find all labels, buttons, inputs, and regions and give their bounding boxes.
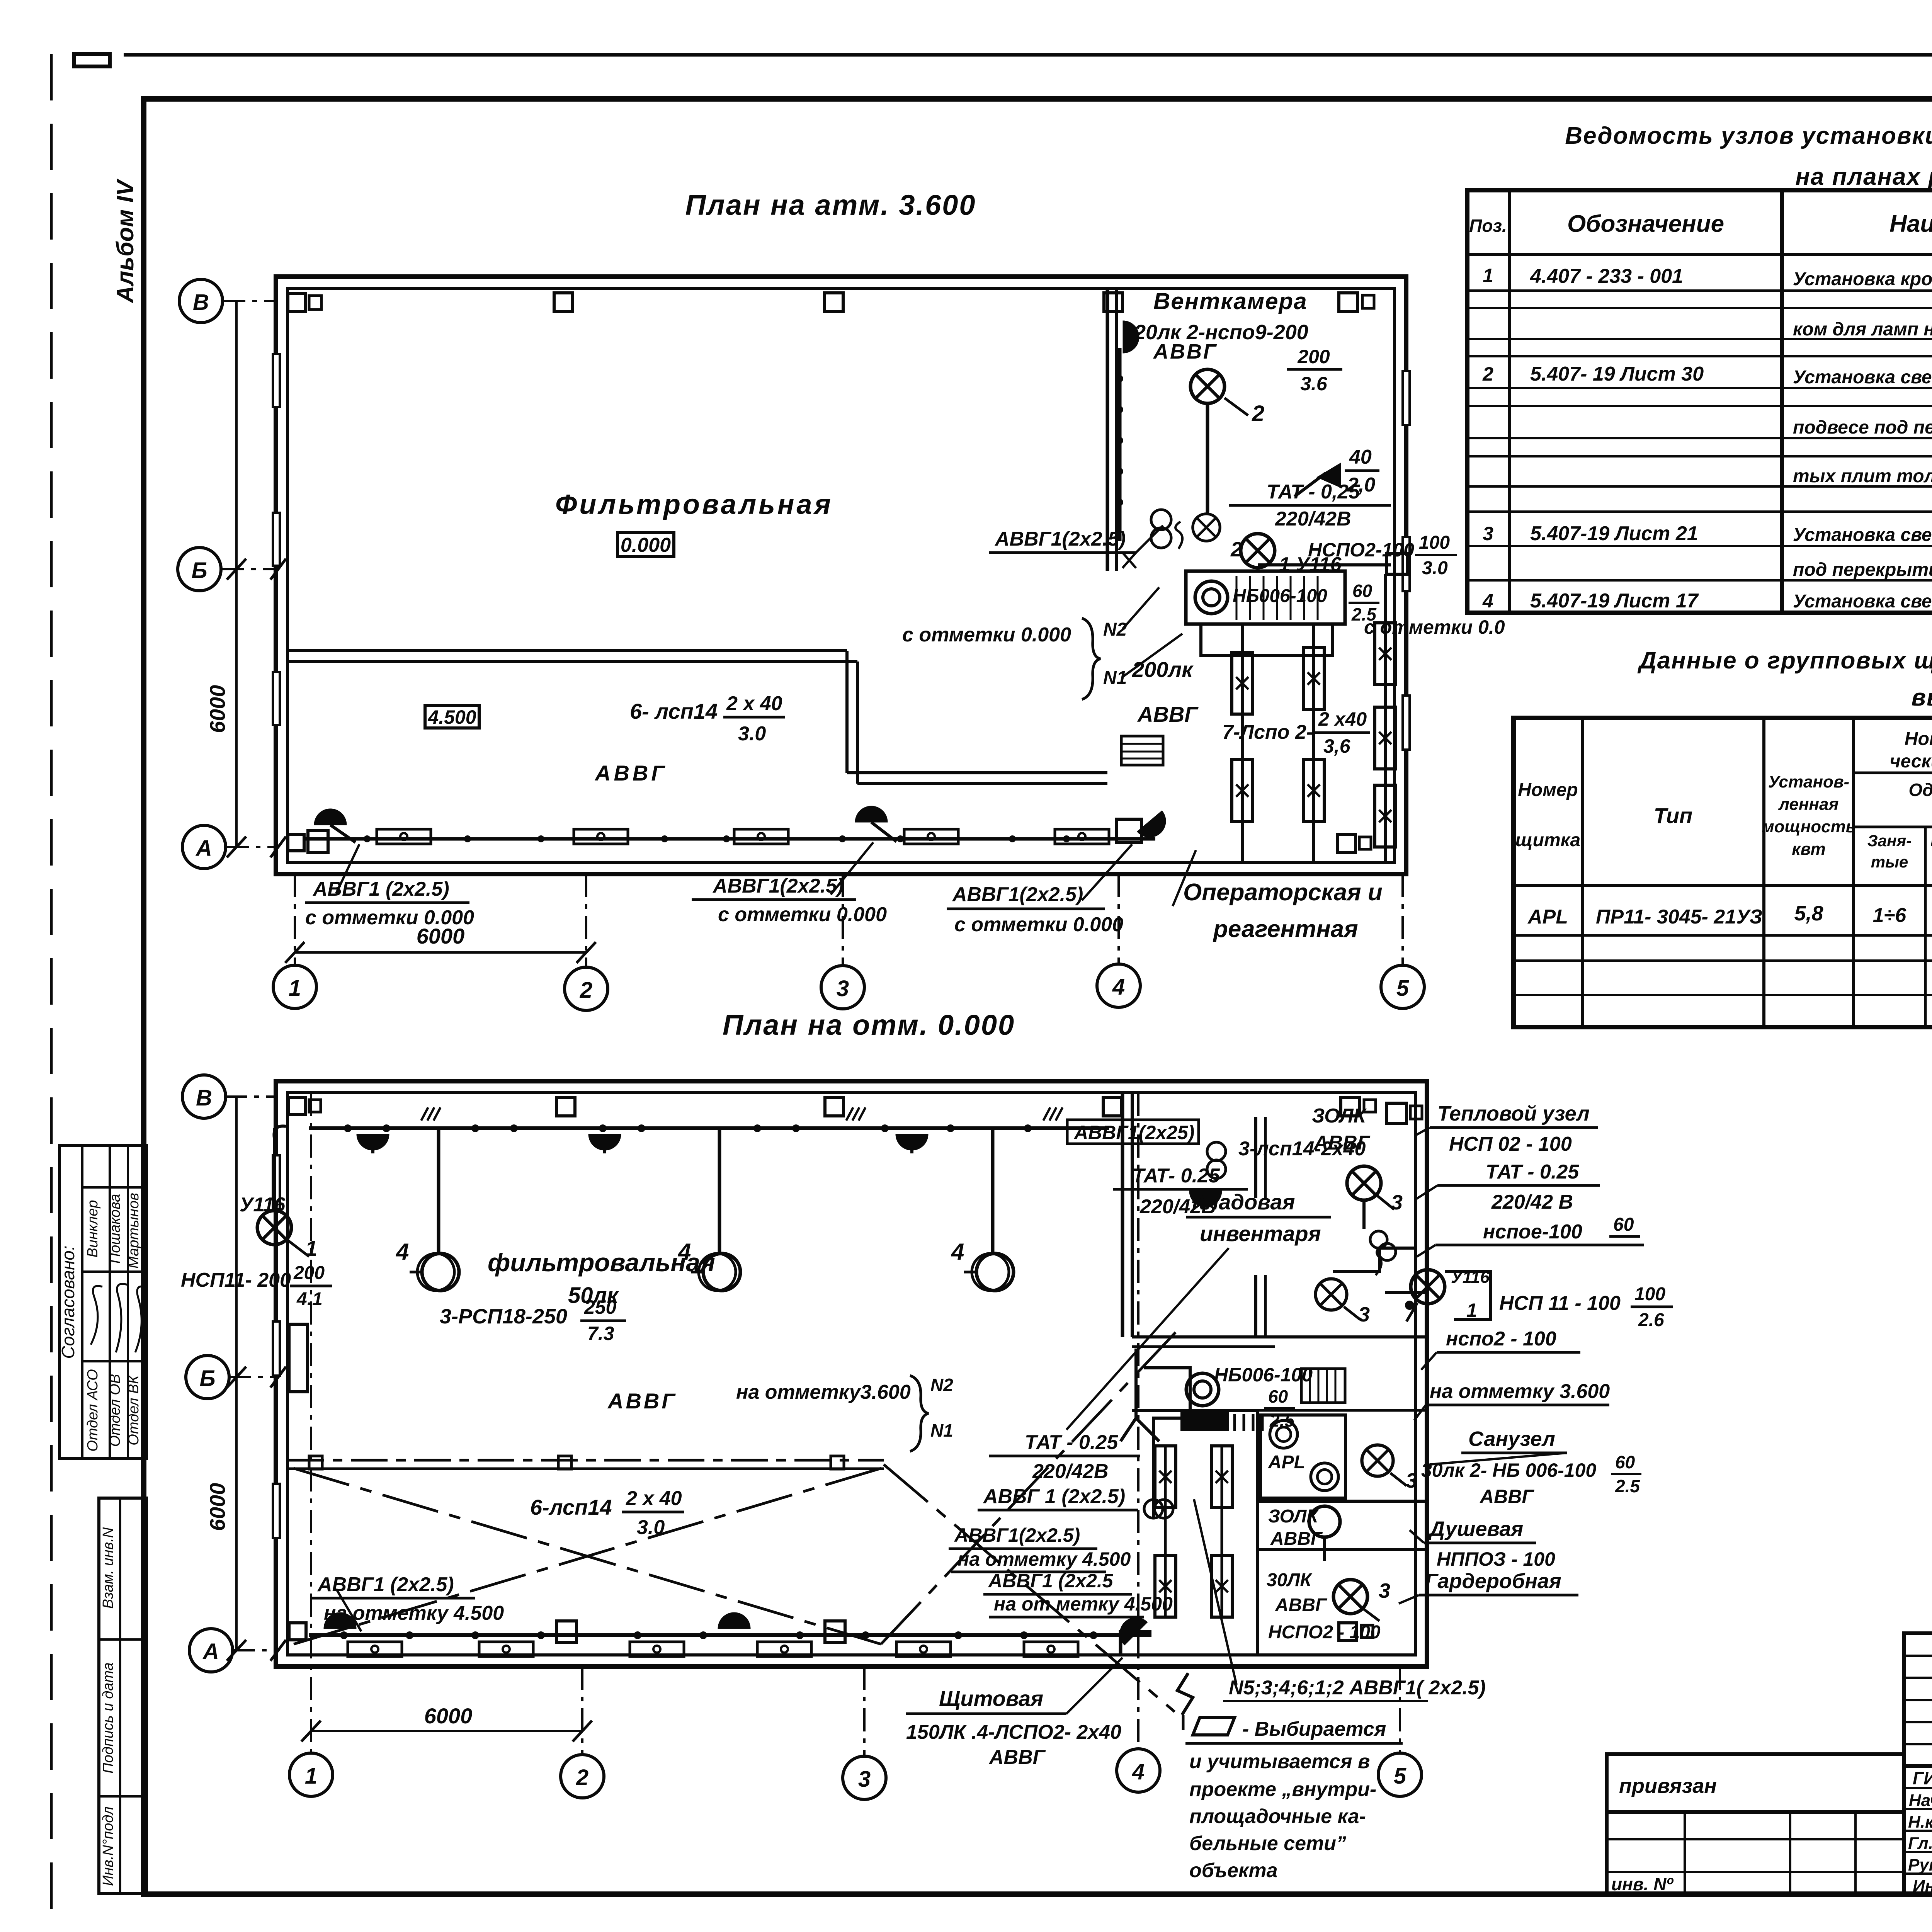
TITLE-BLOCK <box>1607 1633 1932 1896</box>
svg-text:Щитовая: Щитовая <box>939 1686 1043 1711</box>
svg-text:План на атм. 3.600: План на атм. 3.600 <box>685 189 976 221</box>
dannye verticals full <box>1581 718 1584 1027</box>
LEFT-STRIP <box>58 1145 147 1893</box>
svg-text:АВВГ: АВВГ <box>1313 1132 1371 1154</box>
svg-text:200: 200 <box>1297 346 1330 367</box>
svg-text:6000: 6000 <box>417 924 465 948</box>
fluorescent column 3 <box>1384 574 1387 862</box>
column top 5 <box>1341 1097 1359 1116</box>
partition wall horizontal <box>287 649 847 652</box>
axis 3 line <box>842 874 844 966</box>
svg-text:на планах расположения: на планах расположения <box>1795 163 1932 190</box>
svg-text:тые: тые <box>1871 853 1908 871</box>
switch cluster <box>1151 510 1171 530</box>
bottom interior wire <box>305 837 1155 841</box>
ceiling fixtures bottom row <box>377 829 431 844</box>
wall dome lamp 3 <box>896 1134 928 1150</box>
svg-text:200: 200 <box>293 1263 325 1283</box>
wire hooks right <box>1376 1245 1383 1275</box>
svg-text:Резерв-: Резерв- <box>1930 832 1932 850</box>
axis 4 lower <box>1137 1093 1139 1749</box>
fluorescent pair left <box>1155 1446 1176 1508</box>
column top 1 <box>288 294 306 311</box>
svg-text:5.407- 19 Лист 30: 5.407- 19 Лист 30 <box>1530 363 1704 385</box>
ventkamera wire vertical <box>1118 348 1122 541</box>
column top 5b <box>1362 295 1374 308</box>
svg-text:ПР11- 3045- 21УЗ: ПР11- 3045- 21УЗ <box>1596 906 1762 928</box>
svg-text:бельные сети”: бельные сети” <box>1189 1832 1346 1855</box>
svg-text:с отметки 0.000: с отметки 0.000 <box>954 913 1123 936</box>
small switch circles <box>1370 1231 1387 1248</box>
svg-text:нспое-100: нспое-100 <box>1483 1221 1582 1243</box>
svg-text:Кладовая: Кладовая <box>1192 1190 1295 1214</box>
svg-text:7.3: 7.3 <box>587 1323 614 1344</box>
fan room walls <box>1132 1335 1427 1338</box>
wall lamp dome left <box>314 809 347 825</box>
partition wall corner vertical <box>845 651 849 773</box>
svg-text:1: 1 <box>1483 265 1493 286</box>
shchitovaya room wall jog <box>1121 1632 1151 1655</box>
svg-text:5: 5 <box>1396 976 1409 1001</box>
svg-text:на от метку 4.500: на от метку 4.500 <box>994 1593 1173 1615</box>
callout AVVG1 top lower-plan <box>1067 1120 1199 1144</box>
svg-text:Винклер: Винклер <box>85 1200 101 1257</box>
svg-text:реагентная: реагентная <box>1213 916 1358 942</box>
svg-text:В: В <box>196 1085 212 1111</box>
pendant drop 1 <box>437 1128 440 1254</box>
svg-text:60: 60 <box>1613 1214 1634 1235</box>
svg-text:проекте „внутри-: проекте „внутри- <box>1189 1778 1376 1801</box>
svg-text:Подпись и дата: Подпись и дата <box>100 1662 116 1773</box>
lamp U116 <box>1241 534 1275 568</box>
bottom dome lamp 1 <box>324 1612 356 1629</box>
svg-text:АВВГ: АВВГ <box>1275 1595 1328 1616</box>
svg-text:3: 3 <box>1358 1303 1370 1326</box>
pendant drop 3 <box>991 1128 995 1254</box>
window left wall 2 <box>273 513 280 566</box>
axis 2 lower <box>581 1667 583 1755</box>
top-left small box <box>74 54 110 66</box>
staff grid <box>1904 1766 1932 1895</box>
bottom dome lamp 3 <box>1113 1611 1148 1645</box>
svg-text:5.407-19 Лист 21: 5.407-19 Лист 21 <box>1530 522 1698 545</box>
window left wall 1 <box>273 1155 280 1209</box>
wall lamp right with box <box>1117 819 1141 842</box>
wall lamp dome mid <box>855 806 888 822</box>
svg-text:АВВГ1 (2х2.5): АВВГ1 (2х2.5) <box>312 878 449 900</box>
vertical dim 6000 lower <box>235 1097 238 1650</box>
vybirayetsya note <box>1193 1718 1235 1735</box>
svg-text:100: 100 <box>1634 1284 1665 1304</box>
svg-text:3: 3 <box>1391 1191 1403 1214</box>
vertical dim 6000 <box>235 301 238 847</box>
window right wall 1 <box>1403 371 1410 425</box>
svg-text:Установ-: Установ- <box>1768 772 1849 791</box>
svg-text:Установка светильника на крю: Установка светильника на крюке <box>1793 525 1932 545</box>
wall dome lamp 1 <box>357 1134 389 1150</box>
column top 3 <box>825 1097 844 1116</box>
column bottom right b <box>1359 837 1371 849</box>
lamp 2 lower <box>1193 514 1220 541</box>
inner wall line <box>287 1093 1415 1655</box>
dannye verticals partial <box>1924 827 1927 1027</box>
svg-text:6000: 6000 <box>424 1704 473 1728</box>
svg-text:2: 2 <box>576 1765 588 1790</box>
axis circle A lower <box>232 1649 276 1651</box>
svg-text:Б: Б <box>199 1366 215 1391</box>
column top 2 <box>556 1097 575 1116</box>
lamp 3 top right <box>1347 1166 1381 1200</box>
svg-text:щитка: щитка <box>1515 830 1581 850</box>
svg-text:1÷6: 1÷6 <box>1873 904 1906 927</box>
svg-text:1: 1 <box>1466 1299 1477 1321</box>
svg-text:Установка светильника на поло: Установка светильника на полосе <box>1793 591 1932 612</box>
svg-text:Пошакова: Пошакова <box>107 1194 123 1264</box>
bottom fixtures row <box>348 1642 402 1656</box>
ventkamera wall <box>1106 288 1109 571</box>
lower-left mini grid <box>1607 1812 1904 1895</box>
dannye table frame <box>1514 718 1932 1027</box>
top thin border line <box>124 53 1932 57</box>
bottom dome lamp 2 <box>718 1612 750 1629</box>
horizontal dim 6000 <box>295 951 586 954</box>
column top 2 <box>554 293 573 311</box>
svg-text:Поз.: Поз. <box>1469 216 1507 236</box>
svg-text:Однополюс-: Однополюс- <box>1909 780 1932 800</box>
svg-text:площадочные ка-: площадочные ка- <box>1189 1805 1366 1828</box>
svg-text:2 х 40: 2 х 40 <box>626 1487 682 1510</box>
svg-text:объекта: объекта <box>1189 1859 1278 1882</box>
svg-text:220/42В: 220/42В <box>1032 1460 1109 1483</box>
svg-text:100: 100 <box>1419 532 1450 553</box>
svg-text:30ЛК: 30ЛК <box>1267 1570 1313 1590</box>
svg-text:выключателями: выключателями <box>1912 684 1932 711</box>
svg-text:6000: 6000 <box>205 685 230 733</box>
axis circle V lower <box>224 1095 276 1098</box>
svg-text:АВВГ1(2х2.5): АВВГ1(2х2.5) <box>952 883 1083 906</box>
svg-text:А: А <box>202 1639 219 1664</box>
window right wall 2 <box>1403 537 1410 591</box>
lamp 3 lower right <box>1362 1445 1393 1476</box>
svg-text:200лк: 200лк <box>1132 657 1194 682</box>
horizontal dim 6000 lower <box>311 1730 582 1732</box>
dannye header horizontals <box>1854 772 1932 774</box>
partition wall with squares <box>287 1459 884 1462</box>
svg-text:2: 2 <box>580 978 592 1003</box>
lamp 3 bottom right <box>1333 1580 1367 1614</box>
axis line V <box>222 300 276 302</box>
svg-text:АВВГ: АВВГ <box>594 761 668 785</box>
svg-text:3: 3 <box>1379 1579 1390 1602</box>
svg-text:на отметку 3.600: на отметку 3.600 <box>1430 1380 1610 1403</box>
big cross X left <box>294 1468 881 1644</box>
svg-text:Инв.N°подл: Инв.N°подл <box>100 1806 116 1886</box>
svg-text:3,6: 3,6 <box>1323 735 1351 757</box>
svg-text:ТАТ - 0.25: ТАТ - 0.25 <box>1025 1431 1118 1454</box>
upper approvals strip box <box>60 1145 146 1459</box>
svg-text:АВВГ1 (2х2.5: АВВГ1 (2х2.5 <box>988 1570 1114 1592</box>
svg-text:АВВГ: АВВГ <box>1479 1486 1534 1507</box>
svg-text:Номера автомати-: Номера автомати- <box>1905 729 1932 749</box>
hook U116 top-left <box>274 1126 286 1138</box>
svg-text:0.000: 0.000 <box>621 534 671 556</box>
svg-text:APL: APL <box>1527 906 1568 928</box>
stairs <box>1121 736 1163 765</box>
privyazan box <box>1607 1754 1904 1812</box>
svg-text:ленная: ленная <box>1778 795 1839 814</box>
svg-text:7-Лспо 2-: 7-Лспо 2- <box>1222 721 1313 743</box>
svg-text:ГИП: ГИП <box>1913 1768 1932 1788</box>
wall pier left <box>289 1324 308 1392</box>
svg-text:Наименование: Наименование <box>1889 211 1932 237</box>
svg-text:2: 2 <box>1482 363 1493 385</box>
svg-text:220/42В: 220/42В <box>1275 508 1351 530</box>
svg-text:на отметку3.600: на отметку3.600 <box>736 1381 911 1403</box>
svg-text:НСП 02 - 100: НСП 02 - 100 <box>1449 1133 1572 1155</box>
TABLE-DANNYE <box>1514 647 1932 1027</box>
svg-text:6000: 6000 <box>205 1483 230 1531</box>
svg-text:с отметки 0.000: с отметки 0.000 <box>902 624 1071 646</box>
svg-text:4: 4 <box>951 1239 964 1265</box>
axis line A <box>226 846 276 848</box>
APL solid block <box>1180 1412 1229 1431</box>
svg-text:Заня-: Заня- <box>1867 832 1912 850</box>
U116 lamp box right <box>1411 1270 1445 1304</box>
svg-text:Рук. гр.: Рук. гр. <box>1908 1855 1932 1874</box>
svg-text:квт: квт <box>1792 840 1825 859</box>
axis 5 lower <box>1399 1667 1401 1753</box>
svg-text:Установка светильника на кр: Установка светильника на крюке , на <box>1793 367 1932 388</box>
bottom interior wire <box>309 1633 1151 1637</box>
svg-text:Тепловой узел: Тепловой узел <box>1437 1102 1590 1125</box>
svg-text:250: 250 <box>584 1296 617 1318</box>
svg-text:Б: Б <box>191 558 207 583</box>
svg-text:6-лсп14: 6-лсп14 <box>530 1495 612 1519</box>
svg-text:Нач. отд: Нач. отд <box>1909 1791 1932 1810</box>
svg-text:АВВГ: АВВГ <box>988 1746 1046 1769</box>
svg-text:5,8: 5,8 <box>1794 902 1823 925</box>
column bottom left b <box>308 831 328 852</box>
column top 1b <box>309 296 321 310</box>
inner wall line <box>287 288 1395 862</box>
svg-text:НБ006-100: НБ006-100 <box>1214 1364 1313 1386</box>
svg-text:АPL: АPL <box>1268 1452 1305 1473</box>
svg-text:под перекрытием из пустотных п: под перекрытием из пустотных плит <box>1793 560 1932 580</box>
svg-text:Номер: Номер <box>1518 780 1578 800</box>
axis 4 line <box>1117 874 1120 964</box>
elevation box 4.500 <box>425 706 479 728</box>
svg-text:3.0: 3.0 <box>637 1516 665 1539</box>
svg-text:НСПО2-100: НСПО2-100 <box>1308 539 1414 561</box>
svg-text:5: 5 <box>1394 1764 1406 1789</box>
top interior wire <box>309 1126 1109 1130</box>
svg-text:N5;3;4;6;1;2 АВВГ1( 2х2.5): N5;3;4;6;1;2 АВВГ1( 2х2.5) <box>1229 1677 1486 1699</box>
svg-text:и учитывается в: и учитывается в <box>1189 1750 1370 1773</box>
svg-text:2 х40: 2 х40 <box>1318 708 1367 730</box>
right rooms divider vertical <box>1121 1093 1124 1337</box>
svg-text:3.0: 3.0 <box>1422 558 1448 578</box>
svg-text:4.407 - 233 - 001: 4.407 - 233 - 001 <box>1530 265 1683 287</box>
svg-text:АВВГ1(2х25): АВВГ1(2х25) <box>1073 1122 1194 1143</box>
svg-text:Данные о групповых щитках: Данные о групповых щитках с автоматическ… <box>1637 647 1932 674</box>
svg-text:3.0: 3.0 <box>738 723 766 745</box>
teplovoy uzel wall fragment <box>1333 1248 1414 1271</box>
svg-text:220/42 В: 220/42 В <box>1491 1191 1573 1213</box>
svg-text:Душевая: Душевая <box>1428 1517 1523 1541</box>
svg-text:ческих выключателей: ческих выключателей <box>1890 751 1932 772</box>
svg-text:У116: У116 <box>1451 1268 1490 1287</box>
svg-text:2.6: 2.6 <box>1638 1310 1664 1330</box>
fan room unit <box>1186 1373 1219 1406</box>
svg-text:Санузел: Санузел <box>1468 1427 1555 1451</box>
svg-text:А: А <box>195 836 212 861</box>
outer wall <box>276 1081 1427 1667</box>
svg-text:4: 4 <box>1482 590 1493 612</box>
inner room boxes <box>1256 1410 1259 1655</box>
svg-text:3: 3 <box>1483 523 1493 544</box>
svg-text:Гардеробная: Гардеробная <box>1425 1570 1561 1593</box>
fan unit box <box>1186 571 1345 624</box>
svg-text:План на отм. 0.000: План на отм. 0.000 <box>723 1009 1015 1041</box>
vedomost table frame <box>1467 190 1932 613</box>
svg-text:НСП 11 - 100: НСП 11 - 100 <box>1499 1292 1621 1315</box>
column bottom row <box>289 1623 306 1640</box>
svg-text:фильтровальная: фильтровальная <box>488 1248 715 1277</box>
svg-text:НСПО2 - 100: НСПО2 - 100 <box>1268 1622 1381 1643</box>
TABLE-VEDOMOST <box>1467 122 1932 613</box>
hatch marks wire <box>421 1107 440 1121</box>
fan tray <box>1201 624 1332 656</box>
window left wall 3 <box>273 1484 280 1538</box>
kladovaya side walls <box>1254 1117 1257 1198</box>
fluorescent column 1 <box>1241 624 1244 862</box>
svg-text:Гл. спец.: Гл. спец. <box>1908 1834 1932 1853</box>
svg-text:Установка кронштейна У116 све: Установка кронштейна У116 светильни- <box>1793 269 1932 289</box>
svg-text:4: 4 <box>1112 975 1125 1000</box>
svg-text:4.500: 4.500 <box>427 706 476 728</box>
svg-text:60: 60 <box>1615 1452 1635 1472</box>
svg-text:N2: N2 <box>930 1375 953 1395</box>
axis circle B lower <box>228 1376 276 1378</box>
svg-text:с отметки 0.000: с отметки 0.000 <box>718 903 887 926</box>
column top 1 <box>288 1097 305 1114</box>
lamp 2 upper <box>1190 369 1225 403</box>
small squares right top <box>1386 1103 1406 1123</box>
svg-text:3-РСП18-250: 3-РСП18-250 <box>440 1305 567 1328</box>
column top 5b <box>1364 1100 1376 1112</box>
svg-text:АВВГ 1 (2х2.5): АВВГ 1 (2х2.5) <box>983 1485 1125 1508</box>
svg-text:ком для ламп накаливания. Испо: ком для ламп накаливания. Исполнение4 <box>1793 319 1932 340</box>
window left wall 1 <box>273 354 280 407</box>
column top 4 <box>1103 1097 1122 1116</box>
svg-text:3: 3 <box>858 1767 871 1792</box>
svg-text:1: 1 <box>305 1764 317 1789</box>
column bottom left <box>288 835 304 851</box>
column top 3 <box>825 293 843 311</box>
window left wall 3 <box>273 672 280 725</box>
lower strip box <box>99 1498 146 1893</box>
svg-text:4: 4 <box>396 1239 409 1265</box>
APL panel <box>1260 1415 1345 1498</box>
column top 1b <box>309 1100 321 1112</box>
svg-text:НППОЗ - 100: НППОЗ - 100 <box>1437 1548 1555 1570</box>
svg-text:6- лсп14: 6- лсп14 <box>630 699 718 723</box>
svg-text:N1: N1 <box>1103 668 1127 688</box>
svg-text:60: 60 <box>1352 581 1372 601</box>
svg-text:АВВГ1(2х2.5): АВВГ1(2х2.5) <box>954 1524 1080 1546</box>
svg-text:инвентаря: инвентаря <box>1200 1221 1321 1246</box>
axis 1 line <box>294 874 296 965</box>
svg-text:2: 2 <box>1252 401 1264 426</box>
wire to right wall <box>1258 563 1391 566</box>
svg-text:Ведомость узлов установки э: Ведомость узлов установки электрического… <box>1565 122 1932 149</box>
svg-text:В: В <box>193 290 209 315</box>
svg-text:нспо2 - 100: нспо2 - 100 <box>1446 1328 1556 1350</box>
column top 5 <box>1339 293 1357 311</box>
pendant drop 2 <box>718 1128 721 1254</box>
svg-text:Отдел ОВ: Отдел ОВ <box>107 1374 123 1447</box>
axis line B <box>221 568 276 570</box>
axis 1 lower <box>310 1093 312 1753</box>
svg-text:2 х 40: 2 х 40 <box>726 692 782 715</box>
wiring cluster center <box>1121 1349 1159 1441</box>
signatures <box>91 1286 102 1345</box>
wall dome lamp 2 <box>588 1134 621 1150</box>
svg-text:У116: У116 <box>240 1194 286 1216</box>
axis 5 line <box>1401 874 1404 965</box>
svg-text:2.5: 2.5 <box>1615 1476 1640 1496</box>
svg-text:тых плит толщиной 50 мм. Испол: тых плит толщиной 50 мм. Исполнение2 <box>1793 466 1932 486</box>
partition wall horizontal 2 <box>847 771 1107 774</box>
UPPER-PLAN <box>178 189 1505 1010</box>
dannye data rows <box>1514 934 1932 937</box>
plain lamp circle <box>1309 1506 1340 1537</box>
svg-text:на отметку 4.500: на отметку 4.500 <box>957 1548 1131 1570</box>
column top 4 <box>1104 293 1122 311</box>
outer wall <box>276 277 1406 874</box>
svg-text:60: 60 <box>1268 1386 1288 1406</box>
axis 2 line <box>585 874 587 967</box>
svg-text:ТАТ - 0.25: ТАТ - 0.25 <box>1486 1161 1579 1183</box>
column bottom right <box>1338 835 1355 852</box>
lamp 3 mid right <box>1316 1279 1347 1310</box>
svg-text:Взам. инв.N: Взам. инв.N <box>100 1527 116 1609</box>
svg-text:мощность: мощность <box>1762 817 1856 836</box>
svg-text:АВВГ: АВВГ <box>607 1389 677 1413</box>
svg-text:ЗОЛК: ЗОЛК <box>1312 1105 1367 1127</box>
svg-text:Обозначение: Обозначение <box>1567 211 1724 237</box>
svg-text:ТАТ- 0.25: ТАТ- 0.25 <box>1132 1165 1220 1187</box>
svg-text:Венткамера: Венткамера <box>1153 288 1308 314</box>
svg-text:инв. Nº: инв. Nº <box>1611 1874 1673 1894</box>
svg-text:НБ006-100: НБ006-100 <box>1233 586 1327 606</box>
window left wall 2 <box>273 1321 280 1376</box>
axis 3 lower <box>863 1667 866 1756</box>
svg-text:3: 3 <box>1406 1469 1417 1492</box>
svg-text:АВВГ: АВВГ <box>1153 340 1218 363</box>
svg-text:2,0: 2,0 <box>1347 474 1375 496</box>
svg-text:подвесе под перекрытием из реб: подвесе под перекрытием из ребрис- <box>1793 417 1932 438</box>
LOWER-PLAN <box>181 1009 1673 1882</box>
elevation box 0.000 <box>617 532 674 556</box>
svg-text:Н.контр.: Н.контр. <box>1908 1813 1932 1832</box>
svg-text:4.1: 4.1 <box>296 1289 323 1310</box>
svg-text:АВВГ: АВВГ <box>1137 702 1199 726</box>
vedomost row lines <box>1467 289 1932 292</box>
svg-text:5.407-19 Лист 17: 5.407-19 Лист 17 <box>1530 590 1699 612</box>
svg-text:Инж.: Инж. <box>1913 1877 1932 1896</box>
svg-text:АВВГ1(2х2.5): АВВГ1(2х2.5) <box>994 528 1126 550</box>
